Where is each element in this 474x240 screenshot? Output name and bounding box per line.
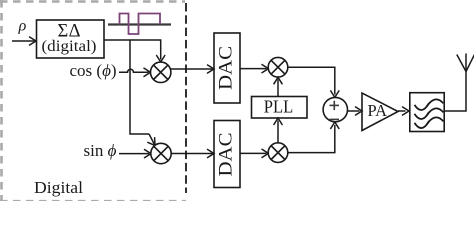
- sigma-delta modulator box U1: [37, 20, 105, 58]
- wire cos input with hop over branch: [119, 69, 149, 72]
- summer: [323, 97, 347, 121]
- filter wave 3 hill arc: [427, 117, 444, 124]
- digital domain dashed border bottom: [0, 200, 186, 202]
- wire mixer Q analog to PLL: [277, 121, 279, 143]
- bandpass filter box: [410, 93, 444, 132]
- mixer Q analog: [268, 143, 288, 163]
- wire rho input arrow: [12, 40, 35, 42]
- filter wave 2 hill arc: [427, 108, 444, 115]
- filter wave 1 hill arc: [427, 99, 444, 106]
- svg-text:PA: PA: [368, 101, 388, 120]
- mixer Q digital: [151, 143, 171, 163]
- wire mixer I to DAC1: [170, 68, 213, 70]
- wire filter to antenna: [444, 72, 466, 112]
- svg-text:PLL: PLL: [264, 97, 294, 117]
- wire branch to Q mixer: [130, 40, 149, 134]
- antenna: [457, 55, 466, 72]
- filter wave 2 valley arc: [415, 112, 430, 119]
- PA amplifier: [362, 93, 398, 131]
- wire summer to PA: [348, 110, 360, 112]
- digital/analog boundary dashed line: [185, 3, 187, 193]
- DAC2 box: [214, 121, 240, 188]
- mixer I analog: [268, 57, 288, 77]
- svg-text:DAC: DAC: [216, 133, 237, 177]
- digital domain dashed border left: [0, 0, 3, 201]
- sigma-delta output waveform axis: [108, 23, 171, 25]
- svg-text:ρ: ρ: [18, 18, 27, 35]
- mixer I digital: [151, 62, 171, 82]
- wire sin input: [119, 153, 149, 155]
- filter wave 1 valley arc: [415, 103, 430, 110]
- wire mixer I analog to summer: [288, 67, 335, 94]
- wire mixer Q to DAC2: [171, 153, 212, 155]
- wire PA to filter: [398, 110, 406, 112]
- svg-text:(digital): (digital): [42, 38, 97, 55]
- DAC1 box: [214, 33, 240, 103]
- wire DAC2 to mixer Q analog: [240, 152, 267, 154]
- svg-text:DAC: DAC: [216, 46, 237, 90]
- PLL box: [252, 97, 308, 119]
- wire PLL to mixer I analog: [277, 80, 279, 97]
- filter wave 3 valley arc: [415, 121, 430, 128]
- svg-text:Digital: Digital: [34, 178, 83, 197]
- wire sigma-delta output to I mixer: [104, 40, 161, 60]
- svg-text:cos (ϕ): cos (ϕ): [70, 61, 117, 80]
- svg-text:sin ϕ: sin ϕ: [84, 141, 117, 160]
- sigma-delta output waveform (1-bit stream): [120, 14, 161, 35]
- digital domain dashed border top: [0, 0, 185, 3]
- wire mixer Q analog to summer: [288, 125, 335, 153]
- wire DAC1 to mixer I analog: [240, 68, 267, 70]
